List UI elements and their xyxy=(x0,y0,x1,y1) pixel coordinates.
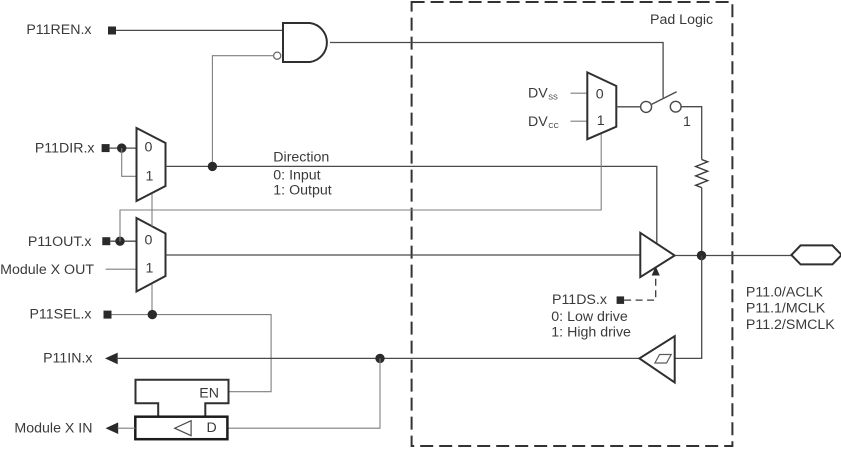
svg-text:1: 1 xyxy=(146,169,154,185)
pin pad P11 hexagon xyxy=(791,245,841,264)
wire P11IN net from schmitt output xyxy=(117,357,640,359)
wire P11DIR junction to mux 1 input xyxy=(122,148,137,176)
svg-text:P11REN.x: P11REN.x xyxy=(26,22,91,38)
wire driver output to pad node xyxy=(675,255,792,257)
node P11IN junction xyxy=(375,354,384,363)
node Direction junction xyxy=(208,162,217,171)
svg-text:P11DS.x: P11DS.x xyxy=(552,292,607,308)
wire P11OUT junction to pull mux select xyxy=(120,133,601,241)
svg-text:P11SEL.x: P11SEL.x xyxy=(29,307,91,323)
svg-text:1: High drive: 1: High drive xyxy=(551,324,631,340)
wire mux select vertical xyxy=(151,194,153,315)
svg-text:P11IN.x: P11IN.x xyxy=(43,351,92,367)
terminal P11DS.x xyxy=(617,296,625,304)
svg-text:0: Input: 0: Input xyxy=(273,167,320,183)
wire Module X OUT stub xyxy=(106,268,137,270)
svg-text:1: 1 xyxy=(683,114,691,130)
arrow P11DS into driver xyxy=(652,266,660,275)
latch L1 EN box xyxy=(136,380,229,417)
mux M1 P11DIR xyxy=(137,128,166,201)
svg-text:P11OUT.x: P11OUT.x xyxy=(28,234,92,250)
resistor R1 xyxy=(696,160,708,188)
node pad junction xyxy=(697,251,706,260)
svg-text:0: Low drive: 0: Low drive xyxy=(551,309,628,325)
wire DVss stub xyxy=(571,92,588,94)
wire switch to resistor xyxy=(681,107,702,160)
terminal P11OUT.x xyxy=(102,237,110,245)
driver buffer U2 xyxy=(640,233,674,277)
svg-text:DV: DV xyxy=(528,85,548,101)
pad logic dashed border xyxy=(412,2,733,446)
switch SW1 left contact xyxy=(641,101,652,112)
arrow P11IN.x xyxy=(105,353,118,365)
wire Module X IN to latch xyxy=(118,427,136,429)
svg-text:Pad Logic: Pad Logic xyxy=(650,12,713,28)
wire P11IN junction to latch D input xyxy=(227,358,380,428)
latch L1 D box xyxy=(135,417,227,440)
svg-text:Module X IN: Module X IN xyxy=(14,420,92,436)
node P11OUT junction xyxy=(115,237,124,246)
terminal P11REN.x xyxy=(108,27,116,35)
AND gate U1 (resistor enable, inverted lower input) xyxy=(283,23,327,62)
svg-text:Direction: Direction xyxy=(273,150,329,166)
svg-text:0: 0 xyxy=(596,86,604,102)
svg-text:EN: EN xyxy=(199,385,219,401)
svg-text:P11.0/ACLK: P11.0/ACLK xyxy=(746,284,824,300)
wire U1 output to switch control xyxy=(330,43,663,98)
wire resistor to pad node xyxy=(701,188,703,256)
wire M3 output to switch xyxy=(616,106,641,108)
svg-text:SS: SS xyxy=(548,92,558,101)
svg-text:1: 1 xyxy=(146,261,154,277)
switch SW1 right contact xyxy=(670,101,681,112)
svg-text:P11.1/MCLK: P11.1/MCLK xyxy=(746,301,826,317)
wire pad node to schmitt input xyxy=(675,256,702,359)
wire M2 output to driver input xyxy=(166,254,641,256)
wire P11SEL.x net xyxy=(112,315,272,392)
terminal P11SEL.x xyxy=(104,311,112,319)
svg-text:0: 0 xyxy=(145,139,153,155)
svg-text:P11DIR.x: P11DIR.x xyxy=(35,140,95,156)
wire P11DS dashed xyxy=(624,276,656,300)
schmitt buffer U3 xyxy=(639,336,674,382)
clock triangle in L1 xyxy=(175,421,191,436)
inverter bubble on U1 lower input xyxy=(274,52,281,59)
switch SW1 blade xyxy=(652,92,677,105)
terminal P11DIR.x xyxy=(102,144,110,152)
svg-text:1: 1 xyxy=(597,113,605,129)
wire DVcc stub xyxy=(571,120,588,122)
wire Direction net xyxy=(166,166,657,243)
mux M3 pull resistor select xyxy=(587,72,616,139)
node P11SEL junction xyxy=(148,310,157,319)
svg-text:Module X OUT: Module X OUT xyxy=(0,262,94,278)
svg-text:1: Output: 1: Output xyxy=(273,183,331,199)
wire P11DIR.x to mux 0 input xyxy=(110,147,137,149)
mux M2 P11OUT xyxy=(137,218,166,292)
svg-text:0: 0 xyxy=(145,233,153,249)
wire direction to U1 bubble input xyxy=(212,56,273,167)
svg-text:DV: DV xyxy=(528,114,548,130)
wire P11OUT.x to mux 0 input xyxy=(110,240,136,242)
hysteresis symbol xyxy=(655,355,671,364)
arrow Module X IN xyxy=(106,422,119,434)
svg-text:D: D xyxy=(207,420,217,436)
svg-text:CC: CC xyxy=(548,121,558,130)
node P11DIR junction xyxy=(117,143,126,152)
svg-text:P11.2/SMCLK: P11.2/SMCLK xyxy=(746,317,835,333)
wire P11REN.x to gate input xyxy=(116,29,283,31)
